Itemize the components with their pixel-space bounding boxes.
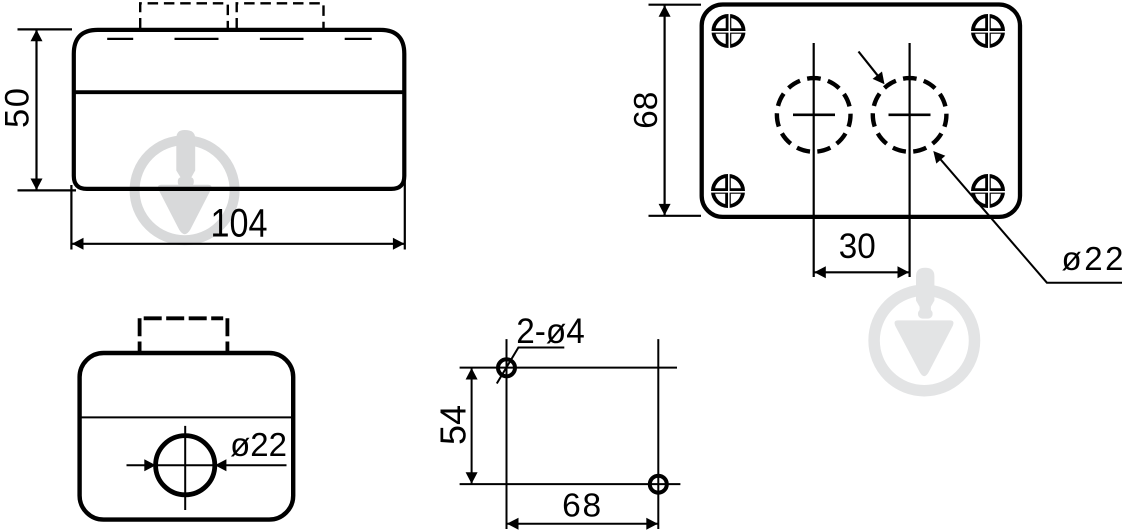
watermark logo 1 (trowel in ring, light grey) — [135, 130, 235, 240]
screw BR — [971, 174, 1006, 209]
svg-text:ø22: ø22 — [1062, 240, 1124, 277]
dim 50 arrow up — [31, 30, 43, 42]
dashed top protrusion right edge — [225, 318, 229, 352]
dim 104 right extension line — [404, 177, 406, 250]
hidden edge dash c — [260, 38, 304, 40]
left hole axis line — [506, 339, 508, 529]
dim 68 bottom arrow left — [507, 518, 519, 530]
svg-text:50: 50 — [0, 88, 37, 128]
dim 30 arrow left — [814, 266, 826, 278]
dim 68 top extension line — [649, 4, 702, 6]
dim 104 dimension line — [73, 243, 405, 245]
dim 30 dimension line — [814, 271, 909, 273]
svg-text:2-ø4: 2-ø4 — [516, 312, 585, 351]
right hole axis line — [657, 339, 659, 529]
dashed top protrusion left edge — [138, 318, 142, 352]
center line left hole — [813, 43, 815, 277]
dim 50 top extension line — [18, 28, 73, 30]
center tick right hole — [889, 114, 931, 117]
dashed hole circle right — [873, 78, 947, 152]
button hole circle — [156, 436, 215, 495]
hidden edge dash b — [175, 38, 219, 40]
dim 54 arrow down — [466, 472, 478, 484]
dim 54 arrow up — [466, 368, 478, 380]
front seam line — [80, 416, 294, 418]
dashed button 1 outline — [140, 3, 228, 28]
center tick left hole — [793, 114, 835, 117]
mounting hole 1 — [498, 359, 515, 376]
dashed hole circle left — [777, 78, 851, 152]
dim 68 arrow down — [659, 204, 671, 216]
dim 68 bottom arrow right — [646, 518, 658, 530]
top hole axis line — [460, 367, 677, 369]
mounting hole 2 — [650, 476, 667, 493]
svg-text:30: 30 — [839, 227, 876, 266]
dim 68 bottom extension line — [649, 215, 702, 217]
svg-text:68: 68 — [562, 488, 601, 525]
dim 104 arrow left — [72, 238, 84, 250]
svg-text:ø22: ø22 — [230, 426, 287, 463]
pointer arrow head — [873, 72, 885, 85]
dim 104 left extension line — [70, 185, 72, 250]
screw BL — [711, 174, 746, 209]
dim 68 bottom dimension line — [507, 523, 658, 525]
dim 68 arrow up — [659, 5, 671, 17]
leader arrow head — [933, 151, 945, 164]
dim 50 arrow down — [31, 179, 43, 191]
hidden edge dash a — [107, 38, 133, 40]
top view box outline — [702, 5, 1020, 217]
watermark logo 2 (trowel in ring, light grey) — [874, 268, 974, 391]
dim 54 dimension line — [471, 368, 473, 483]
leader line for hole diameter — [940, 158, 1123, 283]
screw TR — [971, 14, 1006, 49]
svg-text:104: 104 — [211, 202, 268, 246]
leader line 2-o4 — [497, 348, 565, 384]
diameter arrow left (pointing right) — [144, 459, 156, 471]
dim 104 arrow right — [393, 238, 405, 250]
vertical crosshair — [184, 426, 186, 510]
svg-text:68: 68 — [628, 92, 665, 129]
horizontal crosshair / dimension line — [127, 464, 287, 466]
front view box outline — [80, 353, 294, 520]
screw TL — [711, 14, 746, 49]
dashed top protrusion top edge — [144, 316, 224, 320]
dim 30 arrow right — [898, 266, 910, 278]
side view box outline — [74, 30, 405, 189]
svg-text:54: 54 — [432, 405, 473, 445]
center line right hole — [908, 43, 910, 277]
dim 50 dimension line — [35, 31, 37, 190]
diameter arrow right (pointing left) — [215, 459, 227, 471]
dashed button 2 outline — [237, 3, 324, 28]
lid seam line — [74, 90, 405, 94]
pointer arrow line — [859, 52, 879, 77]
dim 68 dimension line — [663, 6, 665, 216]
bottom hole axis line — [460, 483, 681, 485]
hidden edge dash d — [345, 38, 372, 40]
dim 50 bottom extension line — [18, 189, 77, 191]
